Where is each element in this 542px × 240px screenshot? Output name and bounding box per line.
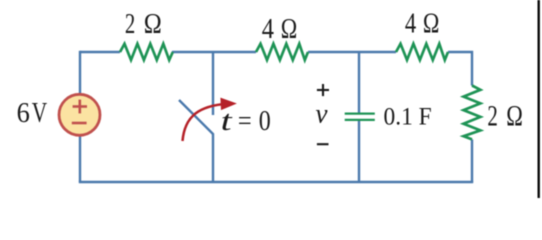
svg-text:4: 4: [262, 13, 275, 45]
wire left vertical below source: [79, 135, 81, 182]
source minus sign: [72, 122, 87, 125]
svg-text:2: 2: [487, 100, 498, 133]
svg-text:=: =: [238, 105, 252, 137]
svg-text:t: t: [221, 105, 233, 137]
svg-text:2: 2: [125, 8, 135, 40]
svg-text:Ω: Ω: [281, 13, 298, 45]
voltage source V1 6V: [59, 94, 100, 135]
wire bottom: [79, 181, 473, 183]
svg-text:v: v: [316, 98, 328, 128]
page edge line: [538, 0, 540, 198]
capacitor minus polarity: [317, 143, 329, 145]
switch blade: [179, 100, 214, 135]
wire capacitor top stub: [358, 52, 360, 114]
resistor R1 2ohm: [120, 44, 173, 60]
svg-text:0.1 F: 0.1 F: [384, 104, 432, 131]
svg-text:V: V: [32, 98, 47, 129]
svg-text:6: 6: [17, 98, 30, 129]
wire switch bottom stub: [212, 134, 214, 182]
svg-text:Ω: Ω: [423, 8, 440, 40]
resistor R2 4ohm: [256, 44, 308, 60]
svg-text:Ω: Ω: [506, 100, 523, 133]
wire capacitor bottom stub: [358, 121, 360, 183]
resistor R4 2ohm vertical: [464, 86, 481, 140]
svg-text:0: 0: [259, 105, 271, 137]
svg-text:4: 4: [405, 8, 417, 40]
switch closing arrow: [183, 104, 223, 141]
wire right vertical below R4: [471, 139, 473, 182]
wire top between R1 and R2: [172, 51, 256, 53]
resistor R3 4ohm: [396, 44, 448, 60]
source plus sign: [73, 105, 87, 108]
wire top left segment: [80, 51, 120, 53]
wire top right segment: [448, 52, 472, 86]
wire top between R2 and R3: [308, 51, 396, 53]
capacitor plus polarity: [317, 89, 329, 91]
wire switch top stub: [212, 52, 214, 115]
capacitor C 0.1F plates: [345, 112, 375, 114]
svg-text:Ω: Ω: [144, 8, 162, 40]
wire left vertical above source: [79, 51, 81, 95]
